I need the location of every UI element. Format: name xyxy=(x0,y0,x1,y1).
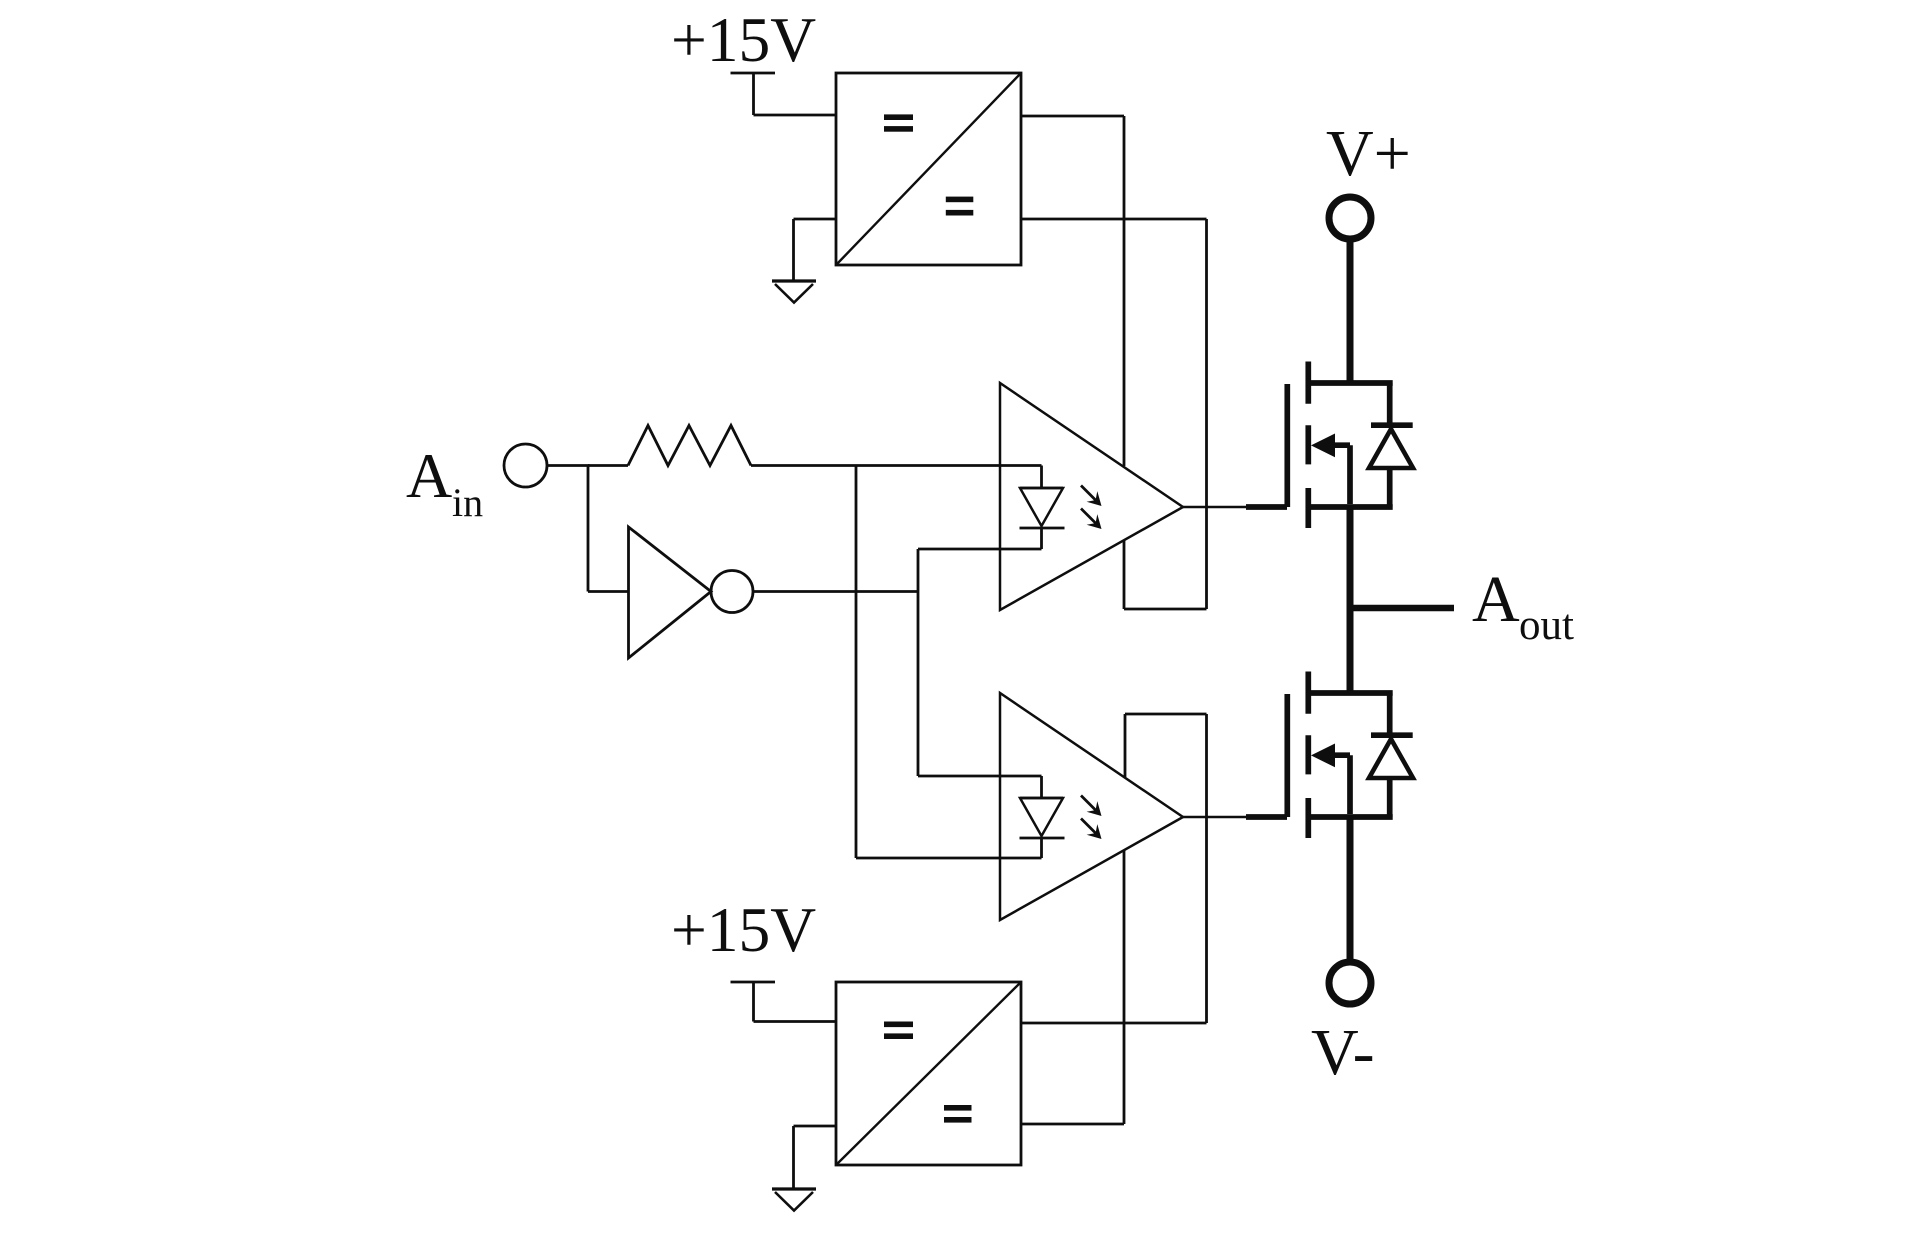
dc-dc converter B1 box xyxy=(836,73,1021,265)
body diode D3 cathode bar xyxy=(1371,422,1413,428)
body diode D4 triangle xyxy=(1369,739,1413,778)
svg-text:A: A xyxy=(1472,563,1520,636)
LED D1 cathode bar xyxy=(1020,527,1065,530)
terminal A_in xyxy=(504,444,547,487)
transistor Q2 drain bar xyxy=(1308,690,1393,696)
dc-dc converter B2 DC symbol input xyxy=(884,1022,913,1040)
node A_in label xyxy=(406,440,483,525)
svg-text:V+: V+ xyxy=(1326,117,1411,190)
body diode D3 leads xyxy=(1387,383,1393,507)
inverter U3 xyxy=(629,527,712,658)
LED D1 anode bar xyxy=(1020,487,1063,490)
+15V rail bar (bottom) xyxy=(731,981,776,984)
wire resistor to LED D1 anode (net A) xyxy=(751,464,1042,467)
wire inverter output (net B) xyxy=(753,590,918,593)
transistor Q2 channel segments xyxy=(1305,672,1311,839)
svg-text:out: out xyxy=(1519,602,1574,649)
wire +15V to converter B1 xyxy=(754,73,837,115)
transistor Q1 drain bar xyxy=(1308,380,1393,386)
wire net A to LED D2 cathode xyxy=(856,857,1042,860)
body diode D4 cathode bar xyxy=(1371,732,1413,738)
opto gate driver U2 xyxy=(1000,693,1183,920)
svg-text:V-: V- xyxy=(1311,1016,1375,1089)
body diode D4 leads xyxy=(1387,693,1393,817)
transistor Q1 gate lead xyxy=(1246,504,1287,510)
transistor Q1 gate bar xyxy=(1284,384,1290,507)
LED D1 triangle xyxy=(1020,488,1063,526)
dc-dc converter B2 DC symbol output xyxy=(944,1105,972,1123)
wire junction to resistor xyxy=(588,464,628,467)
opto gate driver U1 xyxy=(1000,383,1183,610)
LED D2 anode lead xyxy=(1040,776,1043,798)
wire opto U1 output to Q1 gate xyxy=(1183,506,1246,509)
transistor Q1 source bar xyxy=(1308,504,1393,510)
wire junction down to inverter input xyxy=(587,466,590,592)
transistor Q2 gate lead xyxy=(1246,814,1287,820)
LED D2 cathode bar xyxy=(1020,837,1065,840)
wire +15V to converter B2 xyxy=(754,982,837,1022)
wire converter B2 -out to opto U2 Vee xyxy=(1021,850,1124,1124)
transistor Q2 source bar xyxy=(1308,814,1393,820)
resistor R1 xyxy=(628,426,751,466)
wire converter B1 -out to opto U1 Vee xyxy=(1021,219,1207,609)
dc-dc converter B1 DC symbol input xyxy=(884,114,913,131)
wire converter B1 ground pin xyxy=(794,219,837,281)
dc-dc converter B2 diagonal xyxy=(836,982,1021,1165)
dc-dc converter B1 DC symbol output xyxy=(946,197,974,216)
terminal V- xyxy=(1329,962,1371,1004)
LED D2 cathode lead xyxy=(1040,838,1043,858)
wire converter B1 +out to opto U1 Vcc xyxy=(1021,116,1124,466)
body diode D3 triangle xyxy=(1369,429,1413,468)
transistor Q2 body arrow xyxy=(1311,744,1350,815)
wire to inverter xyxy=(588,590,629,593)
node A_out label xyxy=(1472,563,1574,649)
svg-text:+15V: +15V xyxy=(671,4,816,75)
svg-text:A: A xyxy=(406,440,452,511)
transistor Q2 gate bar xyxy=(1284,694,1290,817)
LED D2 triangle xyxy=(1020,798,1063,836)
ground (bottom) xyxy=(772,1189,816,1211)
wire net A down branch xyxy=(855,466,858,859)
wire converter B2 ground pin xyxy=(794,1126,837,1189)
svg-text:+15V: +15V xyxy=(671,894,816,965)
LED D1 light arrow 2 xyxy=(1081,509,1102,530)
node A_out stub xyxy=(1350,605,1454,612)
wire V+ to Q1 drain xyxy=(1347,242,1354,383)
terminal V+ xyxy=(1329,197,1371,239)
LED D1 light arrow 1 xyxy=(1081,486,1102,507)
svg-text:in: in xyxy=(452,480,483,525)
LED D2 anode bar xyxy=(1020,797,1063,800)
wire net B to LED D1 cathode xyxy=(918,548,1042,551)
LED D1 cathode lead xyxy=(1040,528,1043,549)
wire A_in terminal to junction xyxy=(547,464,590,467)
LED D1 anode lead xyxy=(1040,466,1043,489)
transistor Q1 body arrow xyxy=(1311,434,1350,505)
+15V rail bar (top) xyxy=(731,72,776,75)
dc-dc converter B1 diagonal xyxy=(836,73,1021,265)
wire Q1 source to Q2 drain xyxy=(1347,507,1354,693)
wire opto U2 output to Q2 gate xyxy=(1183,816,1246,819)
dc-dc converter B2 box xyxy=(836,982,1021,1165)
LED D2 light arrow 1 xyxy=(1081,796,1102,817)
wire converter B2 +out to opto U2 Vcc xyxy=(1021,714,1207,1023)
transistor Q1 channel segments xyxy=(1305,362,1311,529)
inverter U3 output bubble xyxy=(711,571,753,613)
LED D2 light arrow 2 xyxy=(1081,819,1102,840)
wire Q2 source to V- xyxy=(1347,817,1354,959)
wire net B to LED D2 anode xyxy=(918,775,1042,778)
ground (top) xyxy=(772,281,816,303)
wire net B vertical xyxy=(917,549,920,776)
